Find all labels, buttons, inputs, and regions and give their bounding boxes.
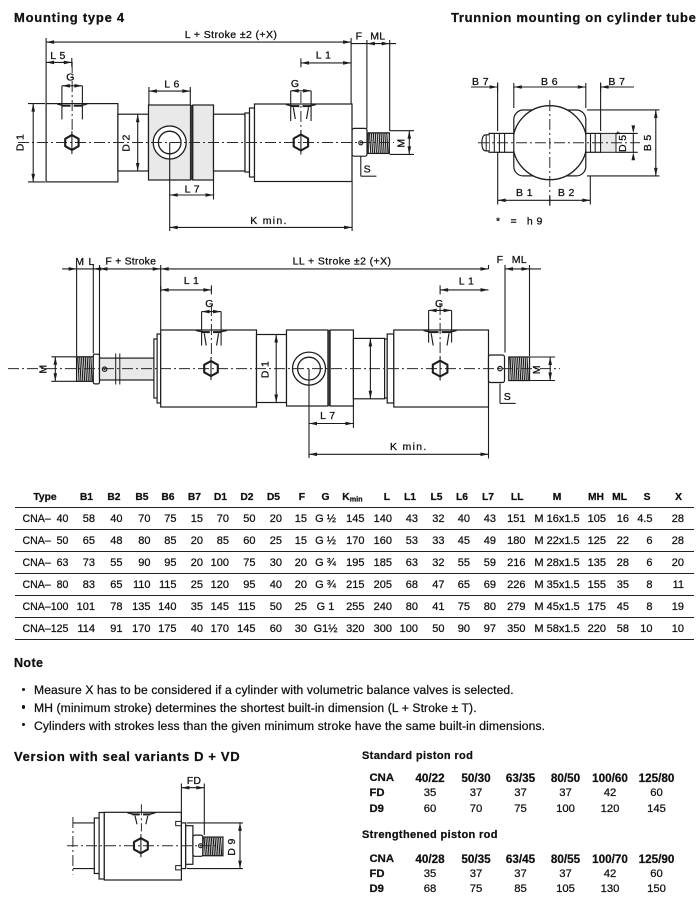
svg-text:ML: ML: [370, 30, 385, 42]
dim FD: [180, 784, 182, 823]
svg-text:B 1: B 1: [516, 187, 533, 199]
dim L + Stroke: [45, 38, 47, 104]
svg-text:M: M: [396, 139, 408, 148]
head block: [104, 812, 181, 880]
dim G right: [291, 90, 311, 92]
tube left D1: [257, 335, 287, 403]
svg-text:L 7: L 7: [320, 410, 335, 422]
rod break marks: [115, 354, 117, 385]
port hex left: [65, 135, 78, 150]
port boss right + G: [424, 330, 430, 332]
right head rings: [385, 339, 388, 398]
unlabeled tube dim: [369, 338, 371, 398]
svg-text:B 7: B 7: [472, 76, 489, 88]
svg-text:B 7: B 7: [608, 76, 625, 88]
corner notches: [176, 821, 182, 825]
svg-text:F + Stroke: F + Stroke: [105, 256, 156, 268]
dim L1 right: [301, 62, 351, 64]
left tube break: [73, 822, 94, 824]
svg-text:L 1: L 1: [316, 49, 331, 61]
svg-text:L 6: L 6: [164, 79, 179, 91]
dim L1 right: [440, 289, 488, 291]
svg-text:L 1: L 1: [184, 275, 199, 287]
rod thread right: [509, 357, 530, 381]
dim L7: [170, 194, 214, 196]
svg-text:K min.: K min.: [250, 215, 288, 227]
square head plate: [514, 110, 586, 176]
svg-text:L + Stroke ±2 (+X): L + Stroke ±2 (+X): [185, 29, 278, 41]
dim K min: [351, 182, 353, 232]
end cap head: [255, 104, 353, 182]
svg-text:D 2: D 2: [121, 134, 133, 152]
rod circle right: [498, 366, 502, 370]
left head rings: [154, 339, 157, 398]
svg-text:D 5*: D 5*: [615, 131, 629, 152]
rod thread left: [77, 357, 94, 382]
svg-text:L 5: L 5: [50, 50, 65, 62]
svg-text:F: F: [497, 254, 503, 266]
dim M left: [51, 356, 76, 358]
dim LL + Stroke: [161, 268, 489, 270]
dim F ML: [366, 40, 368, 129]
svg-text:L 7: L 7: [185, 184, 200, 196]
left head block: [161, 330, 257, 407]
svg-text:F: F: [356, 30, 363, 42]
dims F ML right: [504, 265, 506, 353]
dim L6: [148, 87, 150, 105]
svg-text:D 9: D 9: [226, 838, 238, 856]
svg-text:L 1: L 1: [459, 276, 474, 288]
dim D9: [187, 822, 243, 824]
cylinder tube circle: [513, 106, 587, 180]
piston rod gray: [100, 358, 161, 380]
svg-text:LL + Stroke ±2 (+X): LL + Stroke ±2 (+X): [293, 256, 392, 268]
D9 ring: [181, 823, 185, 869]
svg-text:M: M: [37, 365, 49, 374]
centerlines drawing 2: [478, 142, 640, 144]
dim L7: [308, 369, 310, 458]
gland: [186, 826, 193, 865]
heading trunnion mounting: [451, 11, 697, 24]
rod collar: [193, 835, 203, 856]
rod collar right: [489, 355, 505, 383]
cap rings: [245, 113, 250, 172]
svg-text:* = h 9: * = h 9: [496, 216, 543, 228]
centerlines drawing 4: [67, 845, 215, 847]
svg-text:M L: M L: [75, 256, 95, 268]
center trunnion block: [287, 330, 328, 406]
left mounting block: [46, 104, 118, 182]
dims ML / F+Stroke: [76, 265, 78, 356]
dim M: [390, 130, 414, 132]
dim G left: [62, 85, 83, 87]
svg-text:S: S: [504, 391, 511, 403]
tube left (D2): [118, 114, 149, 171]
port hex right: [294, 135, 308, 151]
svg-text:G: G: [291, 78, 300, 90]
right trunnion pin: [586, 133, 601, 152]
rod collar: [352, 128, 367, 156]
svg-text:B 5: B 5: [642, 134, 654, 151]
svg-text:D 1: D 1: [260, 361, 272, 379]
svg-text:G: G: [435, 298, 444, 310]
dim L1 left: [160, 286, 162, 292]
dim M right: [530, 356, 556, 358]
dim L5: [46, 61, 72, 63]
svg-text:ML: ML: [512, 254, 527, 266]
trunnion block separator: [191, 105, 193, 180]
tube right: [214, 114, 246, 171]
dim D1: [28, 103, 45, 105]
svg-text:D 1: D 1: [15, 134, 27, 152]
svg-text:M: M: [531, 365, 543, 374]
port boss left: [57, 104, 63, 106]
trunnion bore circles: [153, 126, 186, 159]
port boss right: [286, 104, 292, 106]
trunnion center vertical: [169, 143, 171, 232]
heading mounting type 4: [14, 11, 125, 24]
rod collar left: [93, 354, 99, 384]
left trunnion pin: [489, 133, 514, 152]
dim B7 B6 B7: [497, 83, 499, 131]
trunnion block gray part 1: [149, 105, 191, 180]
tube right: [353, 338, 384, 398]
rod thread: [368, 133, 389, 154]
svg-text:S: S: [364, 164, 371, 176]
port boss: [127, 813, 133, 815]
centerline drawing 1: [18, 142, 394, 144]
dim D1: [275, 335, 277, 403]
svg-text:G: G: [66, 72, 75, 84]
svg-text:FD: FD: [187, 775, 202, 787]
S leader: [360, 156, 362, 176]
head rings: [94, 818, 99, 874]
svg-text:K min.: K min.: [390, 441, 428, 453]
centerline drawing 3: [8, 368, 560, 370]
right head block: [394, 330, 489, 407]
dim B5: [587, 109, 660, 111]
svg-text:B 2: B 2: [558, 187, 575, 199]
svg-text:B 6: B 6: [541, 76, 558, 88]
dim D5: [616, 132, 638, 134]
rod thread: [203, 837, 223, 856]
rod circle left: [102, 367, 106, 371]
port boss left + G: [196, 330, 203, 332]
pin extension gray D5: [601, 133, 616, 152]
dim D2: [137, 114, 139, 171]
dim B1 B2: [497, 152, 499, 204]
dim K min: [488, 407, 490, 459]
S leader right: [499, 384, 501, 404]
trunnion block gray part 2: [193, 105, 214, 180]
svg-text:G: G: [205, 298, 214, 310]
